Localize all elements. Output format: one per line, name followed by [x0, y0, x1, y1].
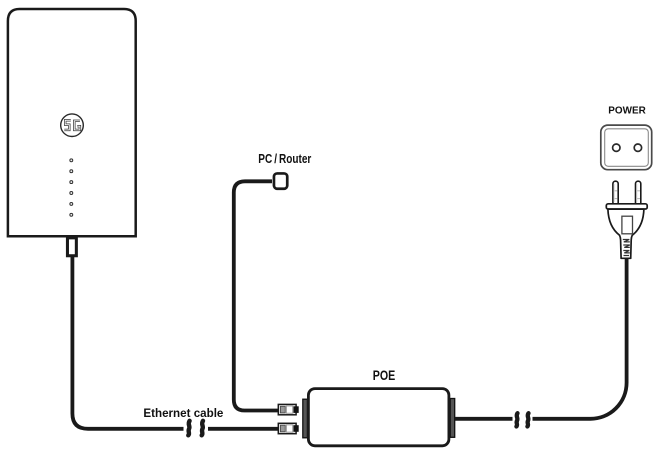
svg-text:POE: POE — [373, 368, 396, 383]
5G logo circle — [61, 114, 84, 137]
5G logo text — [64, 120, 80, 130]
PC/Router port square — [274, 173, 287, 188]
wire: PC/Router to POE — [234, 181, 279, 410]
power cable break marks — [516, 413, 517, 426]
ethernet cable break marks — [188, 421, 189, 436]
power outlet — [601, 125, 652, 170]
plug prong right — [636, 181, 641, 205]
POE right tab — [450, 399, 455, 438]
POE injector box — [308, 389, 449, 446]
svg-text:PC / Router: PC / Router — [258, 151, 311, 166]
POE left tab — [303, 399, 308, 438]
svg-text:Ethernet cable: Ethernet cable — [143, 406, 223, 420]
wire: device to POE (left ethernet cable) — [72, 255, 183, 429]
plug cap bar — [606, 204, 647, 209]
wire: POE to power plug — [455, 417, 513, 421]
svg-text:POWER: POWER — [608, 106, 646, 117]
plug body — [608, 209, 644, 258]
device bottom connector stub — [67, 238, 76, 256]
plug strain relief ridges — [623, 240, 630, 256]
plug inner rectangle — [622, 216, 633, 234]
RJ45 connector lower — [278, 423, 298, 433]
RJ45 connector upper — [278, 404, 298, 414]
LED indicator dots — [70, 159, 73, 216]
plug prong left — [613, 181, 618, 205]
5G CPE device body — [8, 9, 136, 236]
